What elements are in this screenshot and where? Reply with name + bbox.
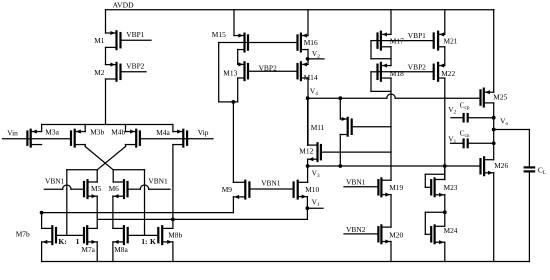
svg-text:Vin: Vin: [7, 128, 18, 137]
svg-text:M7b: M7b: [16, 230, 30, 239]
svg-text:VBN1: VBN1: [261, 179, 281, 188]
svg-text:M13: M13: [223, 69, 237, 78]
svg-text:M4a: M4a: [156, 128, 170, 137]
svg-text:M11: M11: [311, 123, 325, 132]
svg-text:M24: M24: [444, 226, 458, 235]
svg-text:VBN1: VBN1: [346, 177, 366, 186]
svg-text:VBP2: VBP2: [408, 62, 426, 71]
svg-text:K:: K:: [58, 237, 66, 246]
svg-text:Vip: Vip: [198, 128, 209, 137]
svg-text:M21: M21: [444, 37, 458, 46]
svg-text:M16: M16: [304, 38, 318, 47]
svg-text:K: K: [150, 237, 156, 246]
svg-text:M7a: M7a: [81, 245, 95, 254]
svg-text:VBP1: VBP1: [126, 30, 144, 39]
svg-text:M8a: M8a: [114, 245, 128, 254]
svg-text:VBN1: VBN1: [148, 177, 168, 186]
svg-text:M18: M18: [390, 69, 404, 78]
svg-text:M19: M19: [389, 183, 403, 192]
svg-text:VBN1: VBN1: [45, 176, 65, 185]
svg-text:M10: M10: [305, 185, 319, 194]
svg-text:M14: M14: [304, 73, 318, 82]
svg-text:M1: M1: [94, 36, 105, 45]
svg-text:1: 1: [76, 237, 80, 246]
svg-text:M26: M26: [494, 161, 508, 170]
svg-text:M23: M23: [444, 183, 458, 192]
svg-text:VBP1: VBP1: [408, 31, 426, 40]
svg-text:M9: M9: [222, 185, 233, 194]
svg-text:VBP2: VBP2: [259, 63, 277, 72]
svg-text:M25: M25: [493, 93, 507, 102]
svg-text:AVDD: AVDD: [113, 1, 134, 10]
svg-text:M4b: M4b: [111, 127, 125, 136]
svg-text:M22: M22: [441, 69, 455, 78]
svg-text:M6: M6: [109, 184, 120, 193]
svg-text:1:: 1:: [141, 237, 147, 246]
svg-text:M8b: M8b: [168, 231, 182, 240]
svg-text:VBP2: VBP2: [126, 61, 144, 70]
svg-text:M5: M5: [91, 184, 102, 193]
svg-text:M15: M15: [212, 30, 226, 39]
svg-text:M2: M2: [94, 68, 105, 77]
svg-text:VBN2: VBN2: [346, 225, 366, 234]
svg-text:M20: M20: [389, 230, 403, 239]
svg-text:M3b: M3b: [90, 127, 104, 136]
svg-text:M12: M12: [299, 146, 313, 155]
svg-text:M3a: M3a: [45, 127, 59, 136]
svg-text:M17: M17: [390, 37, 404, 46]
